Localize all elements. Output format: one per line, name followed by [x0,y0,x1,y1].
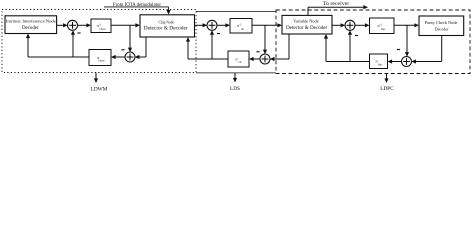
svg-text:Variable Node: Variable Node [293,19,318,24]
svg-text:lds: lds [238,61,241,64]
box Variable Node Detector & Decoder [282,15,332,34]
wire adder A1 to pi^-1 ldwm [77,24,87,26]
branch up to adder A4 minus input [349,34,351,61]
adder A4 after Variable Node [345,20,355,30]
adder A5 feedback LDS [260,54,270,64]
branch up to adder A3 minus input [211,34,213,59]
svg-text:LDWM: LDWM [91,86,108,92]
box Intrinsic Interference Node Decoder [5,16,57,34]
label arrow LDS [234,73,236,79]
svg-text:Detector & Decoder: Detector & Decoder [144,27,188,32]
wire adder A6 to pi ldpc [392,61,402,63]
wire pi ldwm back to IIND (feedback rail) [28,56,89,58]
dashed stage box LDWM (dotted border) [2,10,196,73]
label arrow LDPC [386,74,388,80]
wire pi lds back to Chip Node (feedback rail) [188,58,228,60]
svg-text:Decoder: Decoder [435,26,449,31]
minus sign at A6 [397,49,400,51]
minus sign at A1 [77,32,80,34]
dashed stage box LDPC (dashed border) [276,10,470,74]
svg-text:lds: lds [241,28,244,31]
wire from Variable Node box to receiver [307,7,309,15]
box interleaver pi ldwm [89,50,111,66]
branch down to adder A6 minus input [406,25,408,53]
box deinterleaver pi^-1 ldwm [91,19,111,33]
label arrow LDWM [95,73,97,80]
adder A1 after IIND [68,20,78,30]
wire IIND to adder A1 [57,24,64,26]
adder A2 feedback LDWM [125,52,135,62]
minus sign at A2 [121,49,124,51]
top connector line of LDS zone [196,10,276,12]
box Parity Check Node Decoder [419,16,464,36]
box interleaver pi lds [228,51,249,67]
box Chip Node Detector & Decoder [140,15,195,37]
wire from IOTA demodulator into Chip Node box [104,6,169,8]
svg-text:ldwm: ldwm [100,28,106,31]
svg-text:Chip Node: Chip Node [158,20,174,25]
svg-text:Parity Check Node: Parity Check Node [425,20,458,25]
wire Variable Node bottom leg to adder A5 [288,34,290,59]
svg-text:Intrinsic Interference Node: Intrinsic Interference Node [6,18,56,23]
wire Parity box bottom leg to adder A6 [441,36,443,62]
wire pi^-1 lds to Variable Node box [252,24,278,26]
box interleaver pi ldpc [370,54,388,69]
branch up to adder A1 minus input [72,34,74,57]
minus sign at A5 [256,51,259,53]
wire Chip Node to adder A3 [195,24,204,26]
wire pi^-1 ldwm to Chip Node box [111,24,136,26]
svg-text:To receiver: To receiver [323,2,350,7]
wire adder A5 to pi lds [253,58,260,60]
wire Chip Node bottom leg to adder A2 [145,37,147,57]
svg-text:Detector & Decoder: Detector & Decoder [286,26,328,31]
bottom connector line of LDS zone [196,72,276,74]
adder A3 after Chip Node [207,20,217,30]
svg-text:Decoder: Decoder [22,26,39,31]
wire adder A4 to pi^-1 ldpc [355,24,366,26]
svg-text:LDPC: LDPC [380,86,394,92]
minus sign at A4 [355,35,358,37]
branch down to adder A2 minus input [129,25,131,48]
wire adder A3 to pi^-1 lds [217,24,226,26]
branch down to adder A5 minus input [264,25,266,50]
wire pi ldpc back to Variable Node (feedback rail) [326,61,370,63]
box deinterleaver pi^-1 ldpc [370,18,395,34]
wire adder A2 to pi ldwm [115,56,125,58]
svg-text:ldwm: ldwm [99,60,105,63]
wire Variable Node to adder A4 [332,24,341,26]
wire pi^-1 ldpc to Parity Check box [394,24,415,26]
minus sign at A3 [217,33,220,35]
svg-text:LDS: LDS [230,86,240,92]
box deinterleaver pi^-1 lds [230,19,252,34]
adder A6 feedback LDPC [402,57,412,67]
